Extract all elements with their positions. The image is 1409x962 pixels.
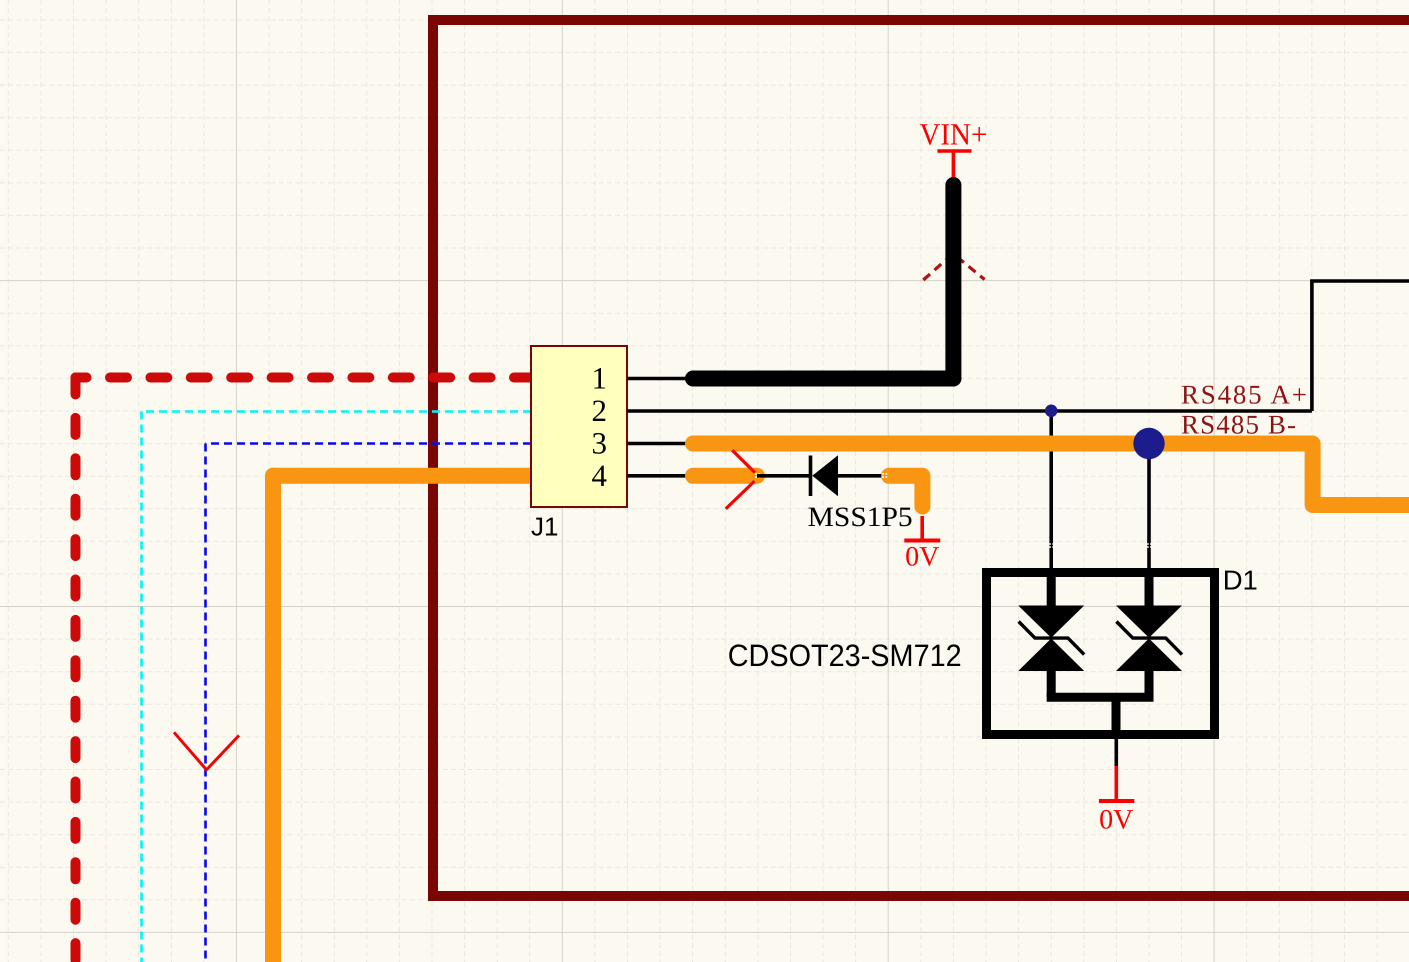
signal harness line (cyan dashed) horizontal segment — [142, 410, 532, 413]
red direction arrow on blue harness line — [174, 732, 239, 770]
TVS common center stub down to box edge — [1112, 697, 1121, 736]
diode MSS1P5 triangle — [812, 455, 838, 496]
TVS cell 2 lower triangle (pointing up) — [1116, 639, 1182, 672]
svg-text:RS485 B-: RS485 B- — [1181, 410, 1296, 440]
svg-text:3: 3 — [592, 425, 608, 460]
D1 designator label — [1223, 565, 1258, 596]
red entry chevron on pin 4 wire — [726, 450, 755, 509]
TVS array D1 body box — [987, 573, 1215, 735]
signal harness line (blue dashed) vertical segment — [204, 444, 207, 962]
diode MSS1P5 cathode bar — [809, 456, 813, 497]
harness line POWER (thick red dashed) horizontal segment — [76, 373, 532, 383]
ground label 0V (MSS1P5) — [905, 542, 939, 573]
TVS cell 1 upper triangle (pointing down) — [1018, 606, 1084, 638]
ground 0V stem (MSS1P5) — [920, 516, 924, 541]
wire: short orange bus segment on J1 pin 4 row — [693, 468, 757, 484]
svg-text:CDSOT23-SM712: CDSOT23-SM712 — [728, 638, 962, 673]
off-grid connection markers on D1 pins — [1049, 543, 1151, 548]
D1 part number label CDSOT23-SM712 — [728, 638, 962, 673]
wire: D1 common pin below box — [1115, 739, 1119, 766]
svg-text:J1: J1 — [531, 512, 558, 542]
net label RS485 B- — [1181, 410, 1296, 440]
wire: thin black from diode to orange elbow — [838, 474, 884, 478]
TVS common bar (U link) — [1047, 693, 1154, 702]
J1 pin number 4 — [592, 458, 608, 493]
signal harness line (cyan dashed) vertical segment — [140, 412, 143, 962]
red dashed entry chevron on VIN+ bus — [923, 254, 984, 281]
harness line POWER (thick red dashed) vertical segment — [71, 378, 81, 962]
svg-text:4: 4 — [592, 458, 608, 493]
J1 pin number 1 — [592, 360, 608, 395]
connector J1 designator label — [531, 512, 558, 542]
wire: thick orange bus vertical down to sheet bottom — [265, 476, 281, 962]
svg-text:0V: 0V — [905, 542, 939, 573]
svg-text:2: 2 — [592, 393, 608, 428]
net label RS485 A+ — [1181, 379, 1307, 409]
wire: RS485 A+ net from J1 pin 2 (thin black horizontal) — [693, 409, 1312, 413]
wire: RS485 A+ vertical segment up at right — [1312, 281, 1409, 411]
signal harness line (blue dashed) horizontal segment — [206, 442, 532, 445]
TVS cell 2 top stub — [1145, 570, 1154, 607]
J1 pin 2 stub wire — [627, 409, 693, 413]
wire: thick black VIN+ bus vertical up — [945, 185, 961, 379]
power port label VIN+ — [919, 117, 987, 152]
diode value label MSS1P5 — [808, 502, 913, 533]
svg-text:0V: 0V — [1099, 804, 1133, 835]
off-grid connection marker at orange segment end — [755, 473, 760, 478]
power port VIN+ stem — [952, 151, 956, 177]
wire: thick orange bus from J1 pin 4 going left — [273, 468, 537, 484]
power port VIN+ bar — [937, 149, 971, 153]
svg-text:MSS1P5: MSS1P5 — [808, 502, 913, 533]
TVS cell 1 zener bar — [1019, 622, 1085, 655]
svg-text:RS485 A+: RS485 A+ — [1181, 379, 1307, 409]
TVS cell 1 bottom stub — [1047, 671, 1056, 697]
J1 pin 4 stub wire — [627, 474, 700, 478]
wire: D1 pin 1 vertical (from A+ junction) — [1049, 411, 1053, 568]
TVS cell 1 top stub — [1047, 570, 1056, 607]
ground label 0V (D1) — [1099, 804, 1133, 835]
ground 0V bar (D1) — [1099, 799, 1134, 803]
J1 pin number 2 — [592, 393, 608, 428]
J1 pin 1 stub wire — [627, 377, 693, 381]
junction dot (large) on RS485 B- bus — [1133, 428, 1164, 459]
off-grid connection marker at orange elbow start — [882, 473, 887, 478]
wire: thin black to diode anode — [757, 474, 811, 478]
junction dot on RS485 A+ net — [1045, 405, 1058, 418]
TVS cell 1 lower triangle (pointing up) — [1018, 639, 1084, 672]
wire: thick black VIN+ bus horizontal from pin 1 — [693, 371, 953, 387]
TVS cell 2 upper triangle (pointing down) — [1116, 606, 1182, 638]
ground 0V stem (D1) — [1115, 766, 1119, 801]
J1 pin 3 stub wire — [627, 442, 693, 446]
ground 0V bar (MSS1P5) — [904, 539, 940, 543]
svg-text:VIN+: VIN+ — [919, 117, 987, 152]
wire: thick orange RS485 B- bus from J1 pin 3 — [693, 444, 1409, 506]
TVS cell 2 zener bar — [1116, 622, 1182, 655]
svg-text:1: 1 — [592, 360, 608, 395]
wire: orange elbow bus to ground — [889, 476, 922, 507]
TVS cell 2 bottom stub — [1145, 671, 1154, 697]
svg-text:D1: D1 — [1223, 565, 1258, 596]
J1 pin number 3 — [592, 425, 608, 460]
connector J1 body — [531, 346, 627, 507]
wire: D1 pin 2 vertical (from B- junction) — [1147, 444, 1151, 569]
sheet entry harness border (dark maroon rectangle) — [433, 20, 1409, 896]
